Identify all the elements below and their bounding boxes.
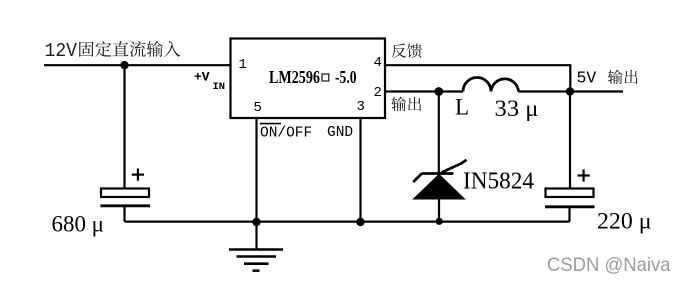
op-amp U1 LM2596 box [231, 39, 386, 119]
label LM2596 -5.0 [269, 67, 357, 87]
wire ground bus bottom [125, 221, 570, 223]
svg-text:IN5824: IN5824 [463, 169, 534, 195]
label +VIN pin1 [194, 70, 225, 94]
svg-text:5V: 5V [577, 69, 597, 88]
svg-text:IN: IN [213, 81, 226, 93]
node ground junction [252, 218, 260, 226]
node gnd-pin junction [356, 218, 364, 226]
capacitor C1 680u plates [101, 169, 151, 222]
diode D1 IN5824 schottky [413, 160, 466, 199]
wire diode drop from output node [438, 92, 440, 174]
wire right cap drop [569, 92, 571, 190]
svg-text:GND: GND [327, 125, 353, 141]
wire diode anode to bus [438, 198, 440, 222]
wire output from pin2 [385, 90, 463, 92]
svg-text:5: 5 [254, 100, 262, 116]
svg-text:ON/OFF: ON/OFF [260, 126, 312, 142]
svg-text:-5.0: -5.0 [335, 67, 357, 87]
wire left cap drop [123, 65, 125, 189]
wire feedback from pin4 [385, 65, 570, 91]
svg-text:3: 3 [357, 99, 365, 115]
svg-text:4: 4 [374, 55, 382, 71]
svg-text:2: 2 [374, 85, 382, 101]
node output junction [566, 87, 574, 95]
svg-text:L: L [455, 95, 469, 120]
svg-text:+V: +V [194, 70, 210, 85]
ground stem [255, 222, 257, 250]
wire pin5 ON/OFF drop [255, 118, 257, 222]
wire input 12V horizontal [44, 64, 231, 66]
inductor L [463, 78, 519, 92]
capacitor C2 220u plates [545, 169, 595, 221]
node diode top junction [434, 87, 443, 96]
label output (shu chu) at pin2 [391, 97, 421, 112]
label 5V output [577, 69, 638, 88]
label ON/OFF with overline [260, 124, 312, 142]
svg-text:33 μ: 33 μ [495, 96, 539, 121]
label 12V fixed DC input [45, 40, 181, 62]
ground [229, 250, 283, 271]
svg-text:LM2596: LM2596 [269, 67, 320, 87]
svg-text:12V: 12V [45, 40, 78, 62]
label feedback (fan kui) [392, 43, 422, 57]
svg-text:CSDN @Naiva: CSDN @Naiva [547, 254, 671, 276]
svg-text:1: 1 [239, 57, 247, 73]
wire output after inductor to 5V [519, 90, 624, 92]
wire pin3 GND drop [359, 118, 361, 222]
node input junction [120, 61, 128, 69]
node diode anode junction [436, 218, 443, 225]
svg-text:680 μ: 680 μ [52, 212, 105, 237]
svg-text:220 μ: 220 μ [597, 209, 652, 234]
